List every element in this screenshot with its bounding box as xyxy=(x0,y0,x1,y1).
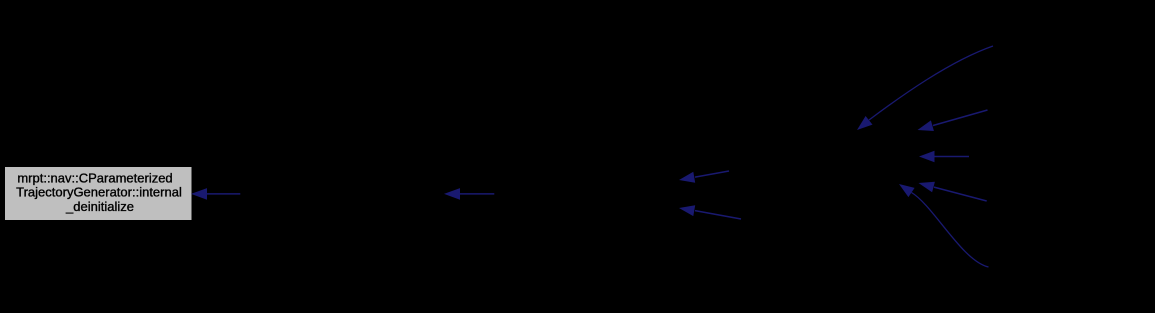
svg-text:_deinitialize: _deinitialize xyxy=(65,199,134,214)
wire: edge 1 shaft xyxy=(206,193,241,195)
wire: edge 8 shaft xyxy=(934,187,987,201)
arrowhead: edge 4 xyxy=(679,205,695,216)
arrowhead: edge 1 xyxy=(191,188,207,200)
wire: edge 5 curved shaft xyxy=(869,46,993,120)
arrowhead: edge 7 xyxy=(919,151,935,163)
wire: edge 9 curved shaft xyxy=(912,193,989,268)
wire: edge 6 shaft xyxy=(933,110,988,126)
wire: edge 3 shaft xyxy=(695,171,729,177)
wire: edge 4 shaft xyxy=(695,211,741,219)
node box: mrpt::nav::CParameterizedTrajectoryGenerator::internal_deinitialize xyxy=(5,167,192,220)
arrowhead: edge 9 xyxy=(899,184,915,197)
svg-text:TrajectoryGenerator::internal: TrajectoryGenerator::internal xyxy=(16,184,182,199)
arrowhead: edge 3 xyxy=(679,172,695,183)
arrowhead: edge 2 xyxy=(444,188,460,200)
wire: edge 7 shaft xyxy=(933,156,969,158)
arrowhead: edge 6 xyxy=(918,120,934,131)
arrowhead: edge 5 xyxy=(857,116,873,130)
arrowhead: edge 8 xyxy=(919,182,935,193)
wire: edge 2 shaft xyxy=(458,193,494,195)
